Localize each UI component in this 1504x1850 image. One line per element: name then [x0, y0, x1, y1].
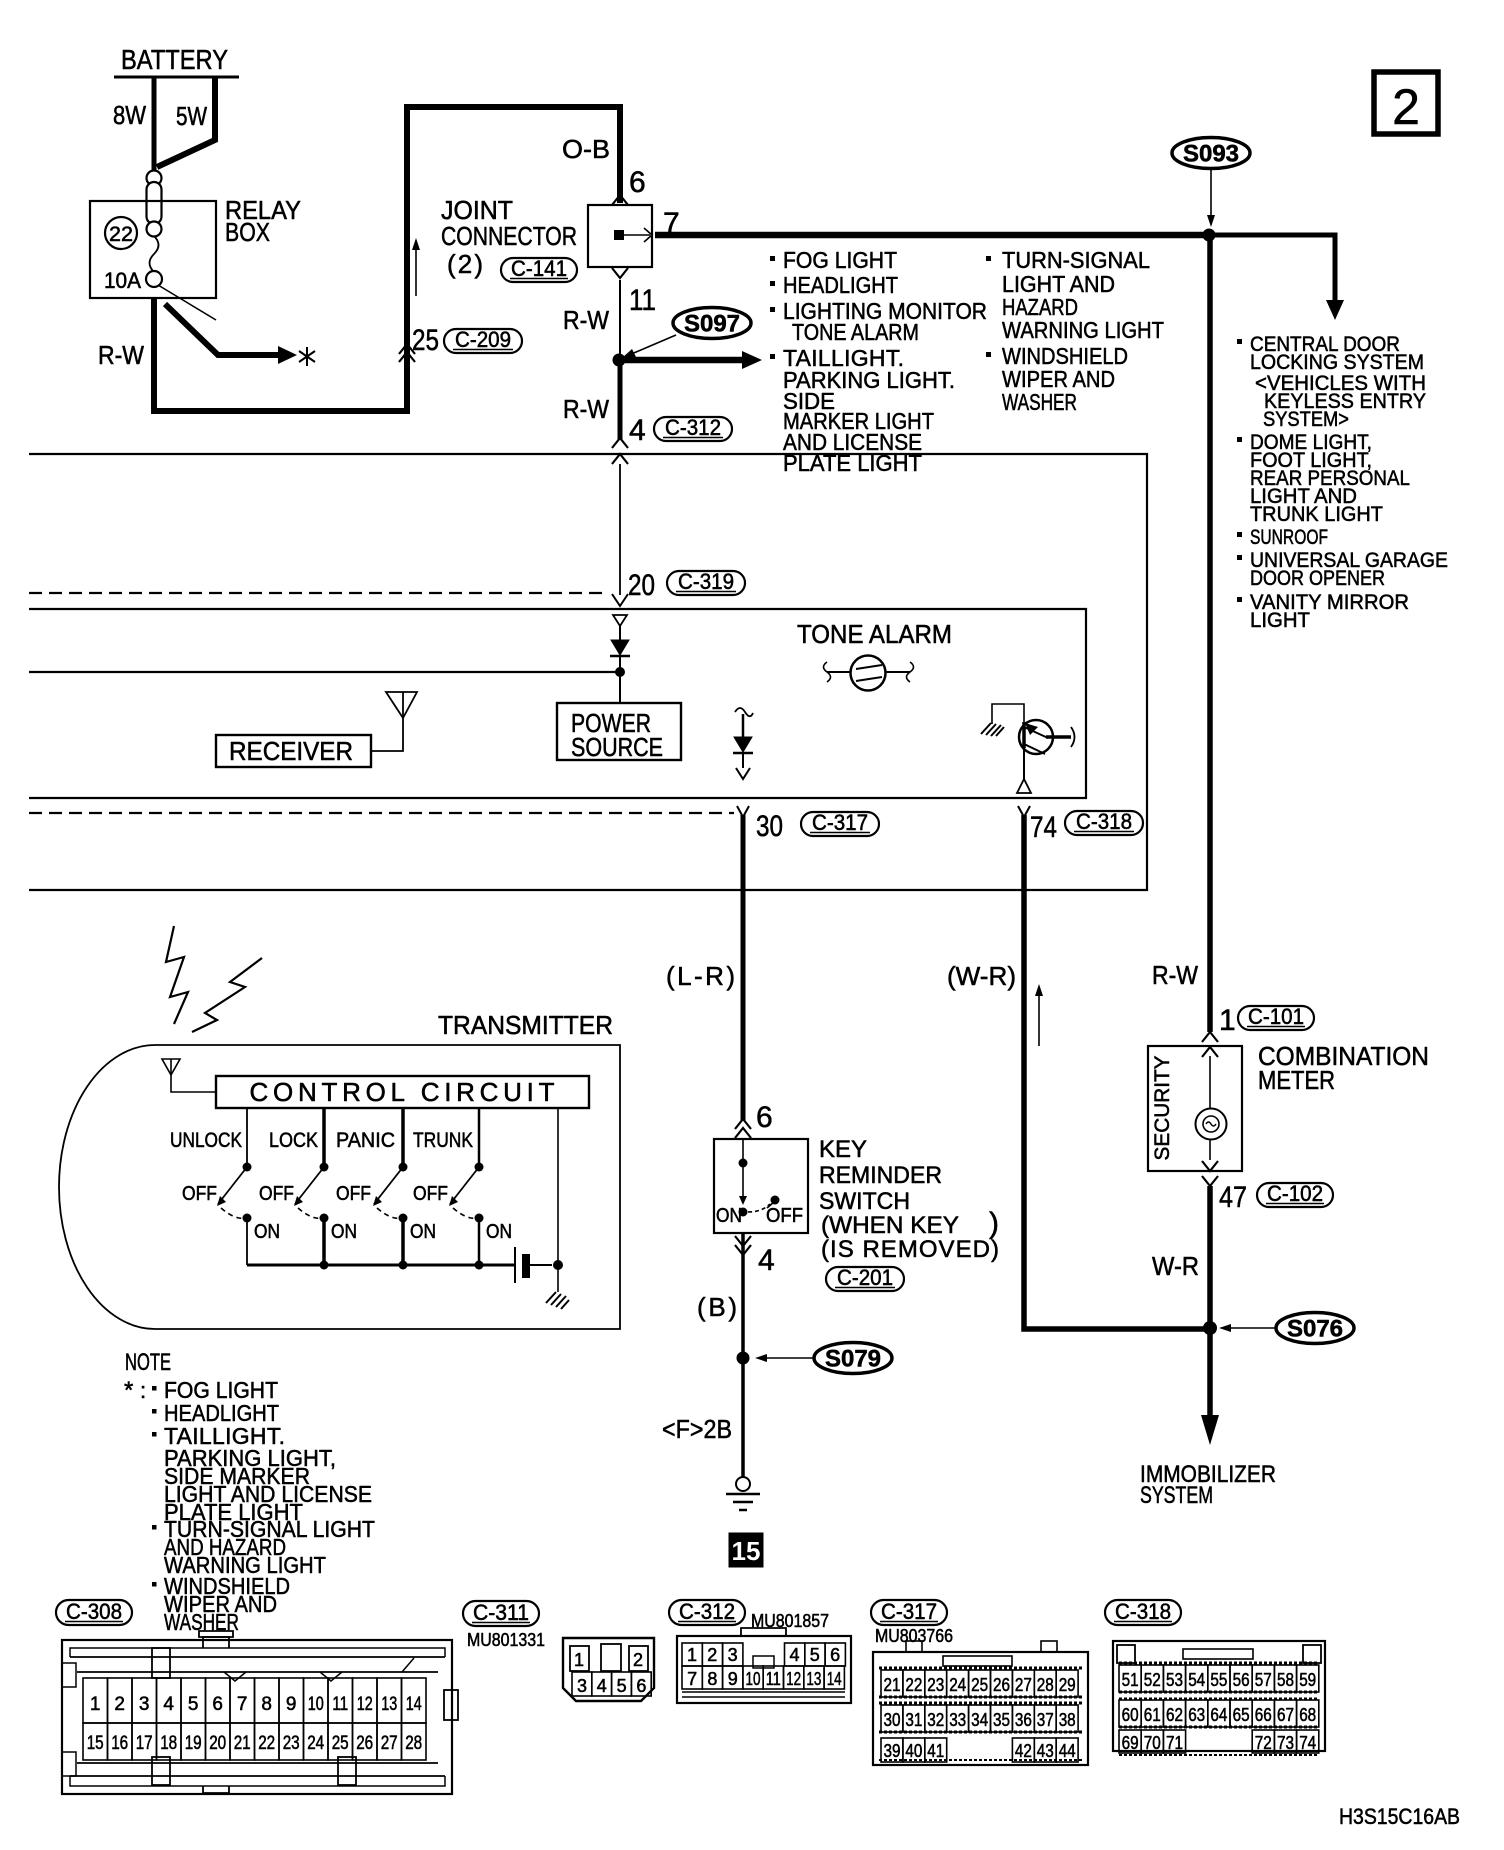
svg-text:60: 60 [1122, 1705, 1139, 1725]
svg-text:4: 4 [758, 1244, 775, 1277]
svg-text:11: 11 [766, 1669, 781, 1689]
svg-text:ON: ON [254, 1221, 280, 1243]
chevrons at C-312 crossing [612, 438, 628, 464]
svg-text:61: 61 [1144, 1705, 1161, 1725]
chevron out of joint connector pin 11 [612, 268, 628, 278]
splice S079 [755, 1343, 892, 1374]
connector C-312 capsule label [669, 1599, 745, 1625]
panic label [336, 1129, 395, 1152]
svg-text:4: 4 [789, 1645, 799, 1665]
double chevron into key switch [735, 1119, 751, 1138]
splice S076 [1219, 1313, 1354, 1344]
svg-text:(B): (B) [697, 1292, 737, 1322]
drawing number [1339, 1804, 1460, 1829]
svg-text:67: 67 [1277, 1705, 1294, 1725]
C-308 pin numbers 15-28 [87, 1733, 423, 1754]
wire control circuit to battery/ground [553, 1108, 563, 1292]
wire label R-W below pin 11 [563, 305, 609, 335]
svg-text:TONE ALARM: TONE ALARM [792, 319, 919, 345]
svg-text:37: 37 [1037, 1710, 1054, 1730]
svg-text:OFF: OFF [182, 1183, 217, 1205]
svg-text:28: 28 [1037, 1675, 1054, 1695]
svg-text:70: 70 [1144, 1733, 1161, 1753]
C-308 pin grid row 2 [83, 1723, 426, 1760]
svg-text:(WHEN KEY: (WHEN KEY [821, 1212, 959, 1239]
double chevron out of key switch [735, 1236, 751, 1255]
wire S097 junction down to C-312 [618, 360, 623, 440]
combination meter label [1258, 1041, 1429, 1095]
svg-text:74: 74 [1299, 1733, 1316, 1753]
svg-text:12: 12 [357, 1694, 373, 1715]
ON label lock [331, 1221, 357, 1243]
svg-text:OFF: OFF [336, 1183, 371, 1205]
pin 1 label [1219, 1004, 1236, 1037]
svg-text:4: 4 [163, 1694, 174, 1715]
svg-text:13: 13 [806, 1669, 821, 1689]
wire label R-W [98, 340, 144, 370]
svg-text:MU803766: MU803766 [875, 1626, 953, 1646]
wire battery 5W branch [157, 77, 215, 167]
svg-text:KEY: KEY [819, 1136, 867, 1163]
svg-text:OFF: OFF [766, 1205, 803, 1227]
svg-text:7: 7 [687, 1669, 697, 1689]
power source label [571, 708, 663, 762]
wire from fuse to * branch (thin) [158, 285, 216, 320]
svg-text:DOOR OPENER: DOOR OPENER [1250, 566, 1385, 590]
svg-text:5: 5 [617, 1676, 627, 1696]
svg-text:*: * [124, 1377, 133, 1404]
OFF label panic [336, 1183, 371, 1205]
svg-text:29: 29 [1059, 1675, 1076, 1695]
pin 4 label [629, 414, 646, 447]
svg-text:TRUNK LIGHT: TRUNK LIGHT [1250, 502, 1383, 526]
svg-text:TRANSMITTER: TRANSMITTER [438, 1010, 613, 1040]
junction dot power source [615, 667, 625, 677]
OFF label trunk [413, 1183, 448, 1205]
svg-text:C-102: C-102 [1267, 1181, 1323, 1206]
svg-text:72: 72 [1255, 1733, 1272, 1753]
control circuit box [216, 1076, 589, 1108]
svg-text:C-311: C-311 [473, 1600, 529, 1625]
splice S097 [673, 308, 751, 339]
receiver unit inner box [29, 609, 1086, 798]
svg-text:10: 10 [746, 1669, 761, 1689]
svg-text:FOG LIGHT: FOG LIGHT [783, 247, 897, 273]
key reminder switch label [819, 1136, 999, 1263]
direction arrow beside W-R wire [1035, 984, 1043, 1046]
svg-text:27: 27 [1015, 1675, 1032, 1695]
svg-text:44: 44 [1059, 1741, 1076, 1761]
wire joint connector to S093 (thick horizontal) [655, 232, 1209, 239]
svg-text:64: 64 [1210, 1705, 1227, 1725]
svg-text:C-312: C-312 [679, 1599, 735, 1624]
connector C-318 housing [1113, 1641, 1325, 1755]
svg-text:(2): (2) [447, 249, 483, 279]
svg-text:REMINDER: REMINDER [819, 1162, 942, 1189]
joint connector box [588, 205, 652, 267]
connector C-311 capsule label [463, 1600, 539, 1626]
note list: fog light etc [770, 247, 987, 476]
svg-text:OFF: OFF [259, 1183, 294, 1205]
C-308 pin grid row 1 [83, 1678, 426, 1723]
connector C-141 capsule [501, 256, 577, 282]
svg-text:TRUNK: TRUNK [413, 1129, 473, 1152]
svg-text:66: 66 [1255, 1705, 1272, 1725]
svg-text:METER: METER [1258, 1065, 1335, 1095]
svg-text:30: 30 [884, 1710, 901, 1730]
C-312 pins row 2 [682, 1666, 844, 1689]
svg-text:26: 26 [993, 1675, 1010, 1695]
transmitter internal ground [546, 1292, 569, 1309]
diode D1 [610, 615, 630, 703]
receiver box [216, 735, 371, 767]
svg-text:18: 18 [160, 1733, 177, 1754]
svg-text:20: 20 [209, 1733, 226, 1754]
svg-text:TURN-SIGNAL: TURN-SIGNAL [1002, 247, 1150, 273]
wire label O-B [562, 134, 610, 164]
svg-text:8W: 8W [113, 100, 146, 130]
C-318 pins 60-68 [1119, 1700, 1319, 1727]
thick arrow right from S097 junction [619, 351, 762, 369]
svg-text:55: 55 [1210, 1670, 1227, 1690]
tone alarm label [797, 619, 952, 649]
wire branch arrow to * [165, 304, 297, 364]
pin 30 label [756, 810, 783, 843]
wire label R-W above C-312 [563, 394, 609, 424]
svg-text:68: 68 [1299, 1705, 1316, 1725]
arrow from S097 oval to junction [622, 335, 676, 358]
svg-text:62: 62 [1166, 1705, 1183, 1725]
svg-text:W-R: W-R [1152, 1251, 1199, 1281]
svg-text:7: 7 [237, 1694, 248, 1715]
OFF label [766, 1205, 803, 1227]
svg-text:13: 13 [381, 1694, 397, 1715]
ground (internal) [981, 723, 1004, 736]
panic switch [373, 1108, 408, 1265]
junction dot at S093 [1203, 229, 1216, 242]
svg-text::: : [140, 1378, 146, 1403]
svg-text:19: 19 [185, 1733, 202, 1754]
svg-text:O-B: O-B [562, 134, 610, 164]
note list: central door locking etc [1237, 332, 1448, 632]
connector C-102 capsule [1257, 1181, 1333, 1207]
svg-text:9: 9 [286, 1694, 297, 1715]
C-312 part number MU801857 [751, 1611, 829, 1631]
svg-text:MU801331: MU801331 [467, 1630, 545, 1650]
svg-text:11: 11 [629, 284, 656, 317]
svg-text:BATTERY: BATTERY [121, 44, 228, 75]
relay box [90, 201, 216, 298]
svg-text:28: 28 [405, 1733, 422, 1754]
connector C-317 housing [873, 1641, 1088, 1765]
svg-text:WASHER: WASHER [1002, 389, 1077, 415]
svg-text:<F>2B: <F>2B [662, 1414, 732, 1444]
connector C-308 housing [62, 1631, 458, 1794]
svg-text:22: 22 [258, 1733, 275, 1754]
svg-text:(W-R): (W-R) [947, 961, 1016, 991]
joint connector label [441, 195, 577, 279]
svg-text:1: 1 [90, 1694, 101, 1715]
svg-text:HEADLIGHT: HEADLIGHT [783, 272, 898, 298]
ON label unlock [254, 1221, 280, 1243]
svg-text:SYSTEM>: SYSTEM> [1263, 407, 1349, 431]
svg-text:RECEIVER: RECEIVER [229, 736, 353, 766]
wire label W-R [1152, 1251, 1199, 1281]
pin 7 label [663, 207, 680, 240]
svg-text:53: 53 [1166, 1670, 1183, 1690]
diode D2 [733, 708, 753, 779]
wire S093 down to combination meter (R-W) [1207, 235, 1213, 1032]
svg-text:39: 39 [884, 1741, 901, 1761]
connector C-317 capsule label [871, 1599, 947, 1625]
svg-text:1: 1 [574, 1650, 584, 1670]
svg-text:C-317: C-317 [812, 810, 868, 835]
svg-text:21: 21 [884, 1675, 901, 1695]
svg-text:21: 21 [234, 1733, 251, 1754]
chevrons out of combination meter [1202, 1161, 1218, 1186]
svg-text:4: 4 [629, 414, 646, 447]
keyless entry unit outer box [29, 454, 1147, 890]
svg-text:C-319: C-319 [678, 569, 734, 594]
key reminder switch internals [739, 1139, 780, 1217]
svg-text:SYSTEM: SYSTEM [1140, 1482, 1213, 1509]
ON label trunk [486, 1221, 512, 1243]
pin 25 label [412, 324, 439, 357]
transmitter common bus [247, 1261, 514, 1270]
svg-text:24: 24 [307, 1733, 324, 1754]
wire label (W-R) [947, 961, 1016, 991]
fusible link 8W label [113, 100, 146, 130]
svg-text:27: 27 [381, 1733, 398, 1754]
tone alarm speaker [824, 656, 914, 691]
svg-text:2: 2 [1392, 79, 1420, 135]
svg-text:15: 15 [732, 1536, 761, 1566]
connector pass arrow at C-209 [412, 238, 420, 296]
svg-text:S076: S076 [1287, 1316, 1343, 1343]
trunk label [413, 1129, 473, 1152]
OFF label lock [259, 1183, 294, 1205]
note list: turn-signal etc [986, 247, 1164, 415]
svg-text:R-W: R-W [563, 305, 609, 335]
wire relay box to joint connector (R-W) [154, 107, 620, 411]
transmitter antenna [162, 1059, 216, 1092]
C-317 part number MU803766 [875, 1626, 953, 1646]
wire 30 down to key reminder switch (L-R) [741, 815, 746, 1120]
svg-text:TONE ALARM: TONE ALARM [797, 619, 952, 649]
svg-text:17: 17 [136, 1733, 153, 1754]
svg-text:8: 8 [707, 1669, 717, 1689]
svg-text:S079: S079 [825, 1346, 881, 1373]
trunk switch [449, 1108, 484, 1265]
pin 20 label [628, 569, 655, 602]
svg-text:2: 2 [633, 1650, 643, 1670]
connector C-101 capsule [1238, 1004, 1314, 1030]
double chevron on wire at C-209 [399, 344, 415, 362]
transistor Q1 [1017, 720, 1075, 793]
fusible link 5W label [176, 101, 207, 131]
ground G1 [726, 1477, 760, 1510]
svg-text:63: 63 [1188, 1705, 1205, 1725]
svg-text:42: 42 [1015, 1741, 1032, 1761]
combination meter box [1148, 1046, 1242, 1171]
junction dot S076 [1203, 1321, 1217, 1335]
transmitter battery cell [515, 1247, 552, 1283]
svg-text:8: 8 [261, 1694, 272, 1715]
svg-text:74: 74 [1030, 811, 1057, 844]
C-317 pins 30-38 [881, 1705, 1078, 1732]
connector C-318 capsule label [1105, 1599, 1181, 1625]
receiver antenna [371, 692, 417, 751]
svg-text:1: 1 [687, 1645, 697, 1665]
junction dot S079 [737, 1352, 750, 1365]
wire label R-W right [1152, 960, 1198, 990]
pin 74 label [1030, 811, 1057, 844]
svg-text:25: 25 [971, 1675, 988, 1695]
pin 30 entry arrow [737, 806, 749, 817]
svg-text:38: 38 [1059, 1710, 1076, 1730]
svg-text:LOCK: LOCK [269, 1129, 318, 1152]
svg-text:25: 25 [332, 1733, 349, 1754]
svg-text:11: 11 [332, 1694, 348, 1715]
svg-text:BOX: BOX [225, 217, 270, 247]
svg-text:57: 57 [1255, 1670, 1272, 1690]
svg-text:24: 24 [949, 1675, 966, 1695]
wire 74 down and right to S076 (W-R) [1024, 815, 1206, 1329]
svg-text:20: 20 [628, 569, 655, 602]
junction node in joint connector [614, 230, 624, 240]
C-308 pin numbers 1-14 [90, 1694, 422, 1715]
pin 47 label [1219, 1181, 1247, 1214]
battery label [114, 44, 239, 77]
svg-text:41: 41 [927, 1741, 944, 1761]
svg-text:65: 65 [1233, 1705, 1250, 1725]
transmitter label [438, 1010, 613, 1040]
connector C-209 capsule [444, 327, 522, 353]
svg-text:3: 3 [139, 1694, 150, 1715]
security lamp [1196, 1056, 1227, 1160]
pin 6 label key switch [756, 1101, 773, 1134]
svg-text:2: 2 [114, 1694, 125, 1715]
svg-text:69: 69 [1122, 1733, 1139, 1753]
dashed internal bus upper [29, 592, 608, 594]
key reminder switch box [714, 1139, 808, 1233]
svg-text:26: 26 [356, 1733, 373, 1754]
arrow into pin 20 [612, 594, 628, 606]
pin 6 label [629, 166, 646, 199]
svg-text:51: 51 [1122, 1670, 1139, 1690]
wire to immobilizer system with arrow [1201, 1328, 1219, 1445]
pin 7 arrow [624, 228, 652, 242]
svg-text:C-101: C-101 [1248, 1004, 1304, 1029]
svg-text:58: 58 [1277, 1670, 1294, 1690]
svg-text:22: 22 [905, 1675, 922, 1695]
svg-text:1: 1 [1219, 1004, 1236, 1037]
svg-text:5W: 5W [176, 101, 207, 131]
svg-text:C-318: C-318 [1076, 809, 1132, 834]
asterisk note mark [299, 347, 315, 366]
svg-text:ON: ON [486, 1221, 512, 1243]
svg-text:C-141: C-141 [511, 256, 567, 281]
wire meter down to S076 (W-R) [1207, 1186, 1213, 1327]
ON label panic [410, 1221, 436, 1243]
svg-text:3: 3 [728, 1645, 738, 1665]
C-312 pins row 1 [682, 1643, 845, 1666]
svg-text:ON: ON [410, 1221, 436, 1243]
svg-text:PANIC: PANIC [336, 1129, 395, 1152]
svg-text:6: 6 [756, 1101, 773, 1134]
svg-text:R-W: R-W [1152, 960, 1198, 990]
transmitter enclosure [59, 1045, 620, 1329]
lock switch [294, 1108, 329, 1265]
svg-text:43: 43 [1037, 1741, 1054, 1761]
immobilizer system label [1140, 1461, 1276, 1509]
svg-text:C-312: C-312 [665, 415, 721, 440]
svg-text:6: 6 [830, 1645, 840, 1665]
receiver label [229, 736, 353, 766]
svg-text:47: 47 [1219, 1181, 1247, 1214]
chevrons into combination meter [1202, 1032, 1218, 1057]
ground reference 15 box [729, 1533, 763, 1567]
svg-text:71: 71 [1166, 1733, 1183, 1753]
svg-text:40: 40 [905, 1741, 922, 1761]
svg-text:14: 14 [827, 1669, 842, 1689]
svg-text:(IS REMOVED): (IS REMOVED) [821, 1236, 999, 1263]
svg-text:6: 6 [636, 1676, 646, 1696]
svg-text:ON: ON [331, 1221, 357, 1243]
svg-text:ON: ON [716, 1205, 742, 1227]
svg-text:H3S15C16AB: H3S15C16AB [1339, 1804, 1460, 1829]
svg-text:15: 15 [87, 1733, 104, 1754]
pin 11 label [629, 284, 656, 317]
svg-text:25: 25 [412, 324, 439, 357]
wire label (B) [697, 1292, 737, 1322]
svg-text:SECURITY: SECURITY [1151, 1056, 1174, 1161]
fuse rating 10A [104, 268, 141, 293]
C-317 pins 21-29 [881, 1670, 1078, 1697]
connector C-317 capsule (inline) [801, 810, 879, 836]
connector C-319 capsule [667, 569, 745, 595]
svg-text:C-317: C-317 [881, 1599, 937, 1624]
chevron into joint connector pin 6 [612, 195, 628, 205]
C-318 pins 69-74 [1119, 1730, 1319, 1753]
svg-text:34: 34 [971, 1710, 988, 1730]
svg-text:C-209: C-209 [455, 327, 511, 352]
wire S093 junction to right branch with arrow [1209, 235, 1344, 320]
connector C-318 capsule (inline) [1065, 809, 1143, 835]
svg-text:32: 32 [927, 1710, 944, 1730]
svg-text:23: 23 [927, 1675, 944, 1695]
svg-text:3: 3 [577, 1676, 587, 1696]
radio wave symbol [166, 926, 262, 1032]
svg-text:12: 12 [786, 1669, 801, 1689]
svg-text:R-W: R-W [98, 340, 144, 370]
wire into power source junction [29, 671, 617, 673]
connector C-312 housing [677, 1628, 851, 1703]
svg-text:S093: S093 [1183, 141, 1239, 168]
svg-text:6: 6 [629, 166, 646, 199]
C-311 pins [570, 1644, 651, 1696]
page number 2 box [1374, 72, 1438, 135]
svg-text:C-318: C-318 [1115, 1599, 1171, 1624]
svg-text:54: 54 [1188, 1670, 1205, 1690]
svg-text:30: 30 [756, 810, 783, 843]
svg-text:LIGHT: LIGHT [1250, 608, 1310, 632]
svg-text:SWITCH: SWITCH [819, 1188, 910, 1215]
svg-text:6: 6 [212, 1694, 223, 1715]
pin 74 entry arrow [1018, 806, 1030, 817]
svg-text:31: 31 [905, 1710, 922, 1730]
svg-text:14: 14 [406, 1694, 422, 1715]
